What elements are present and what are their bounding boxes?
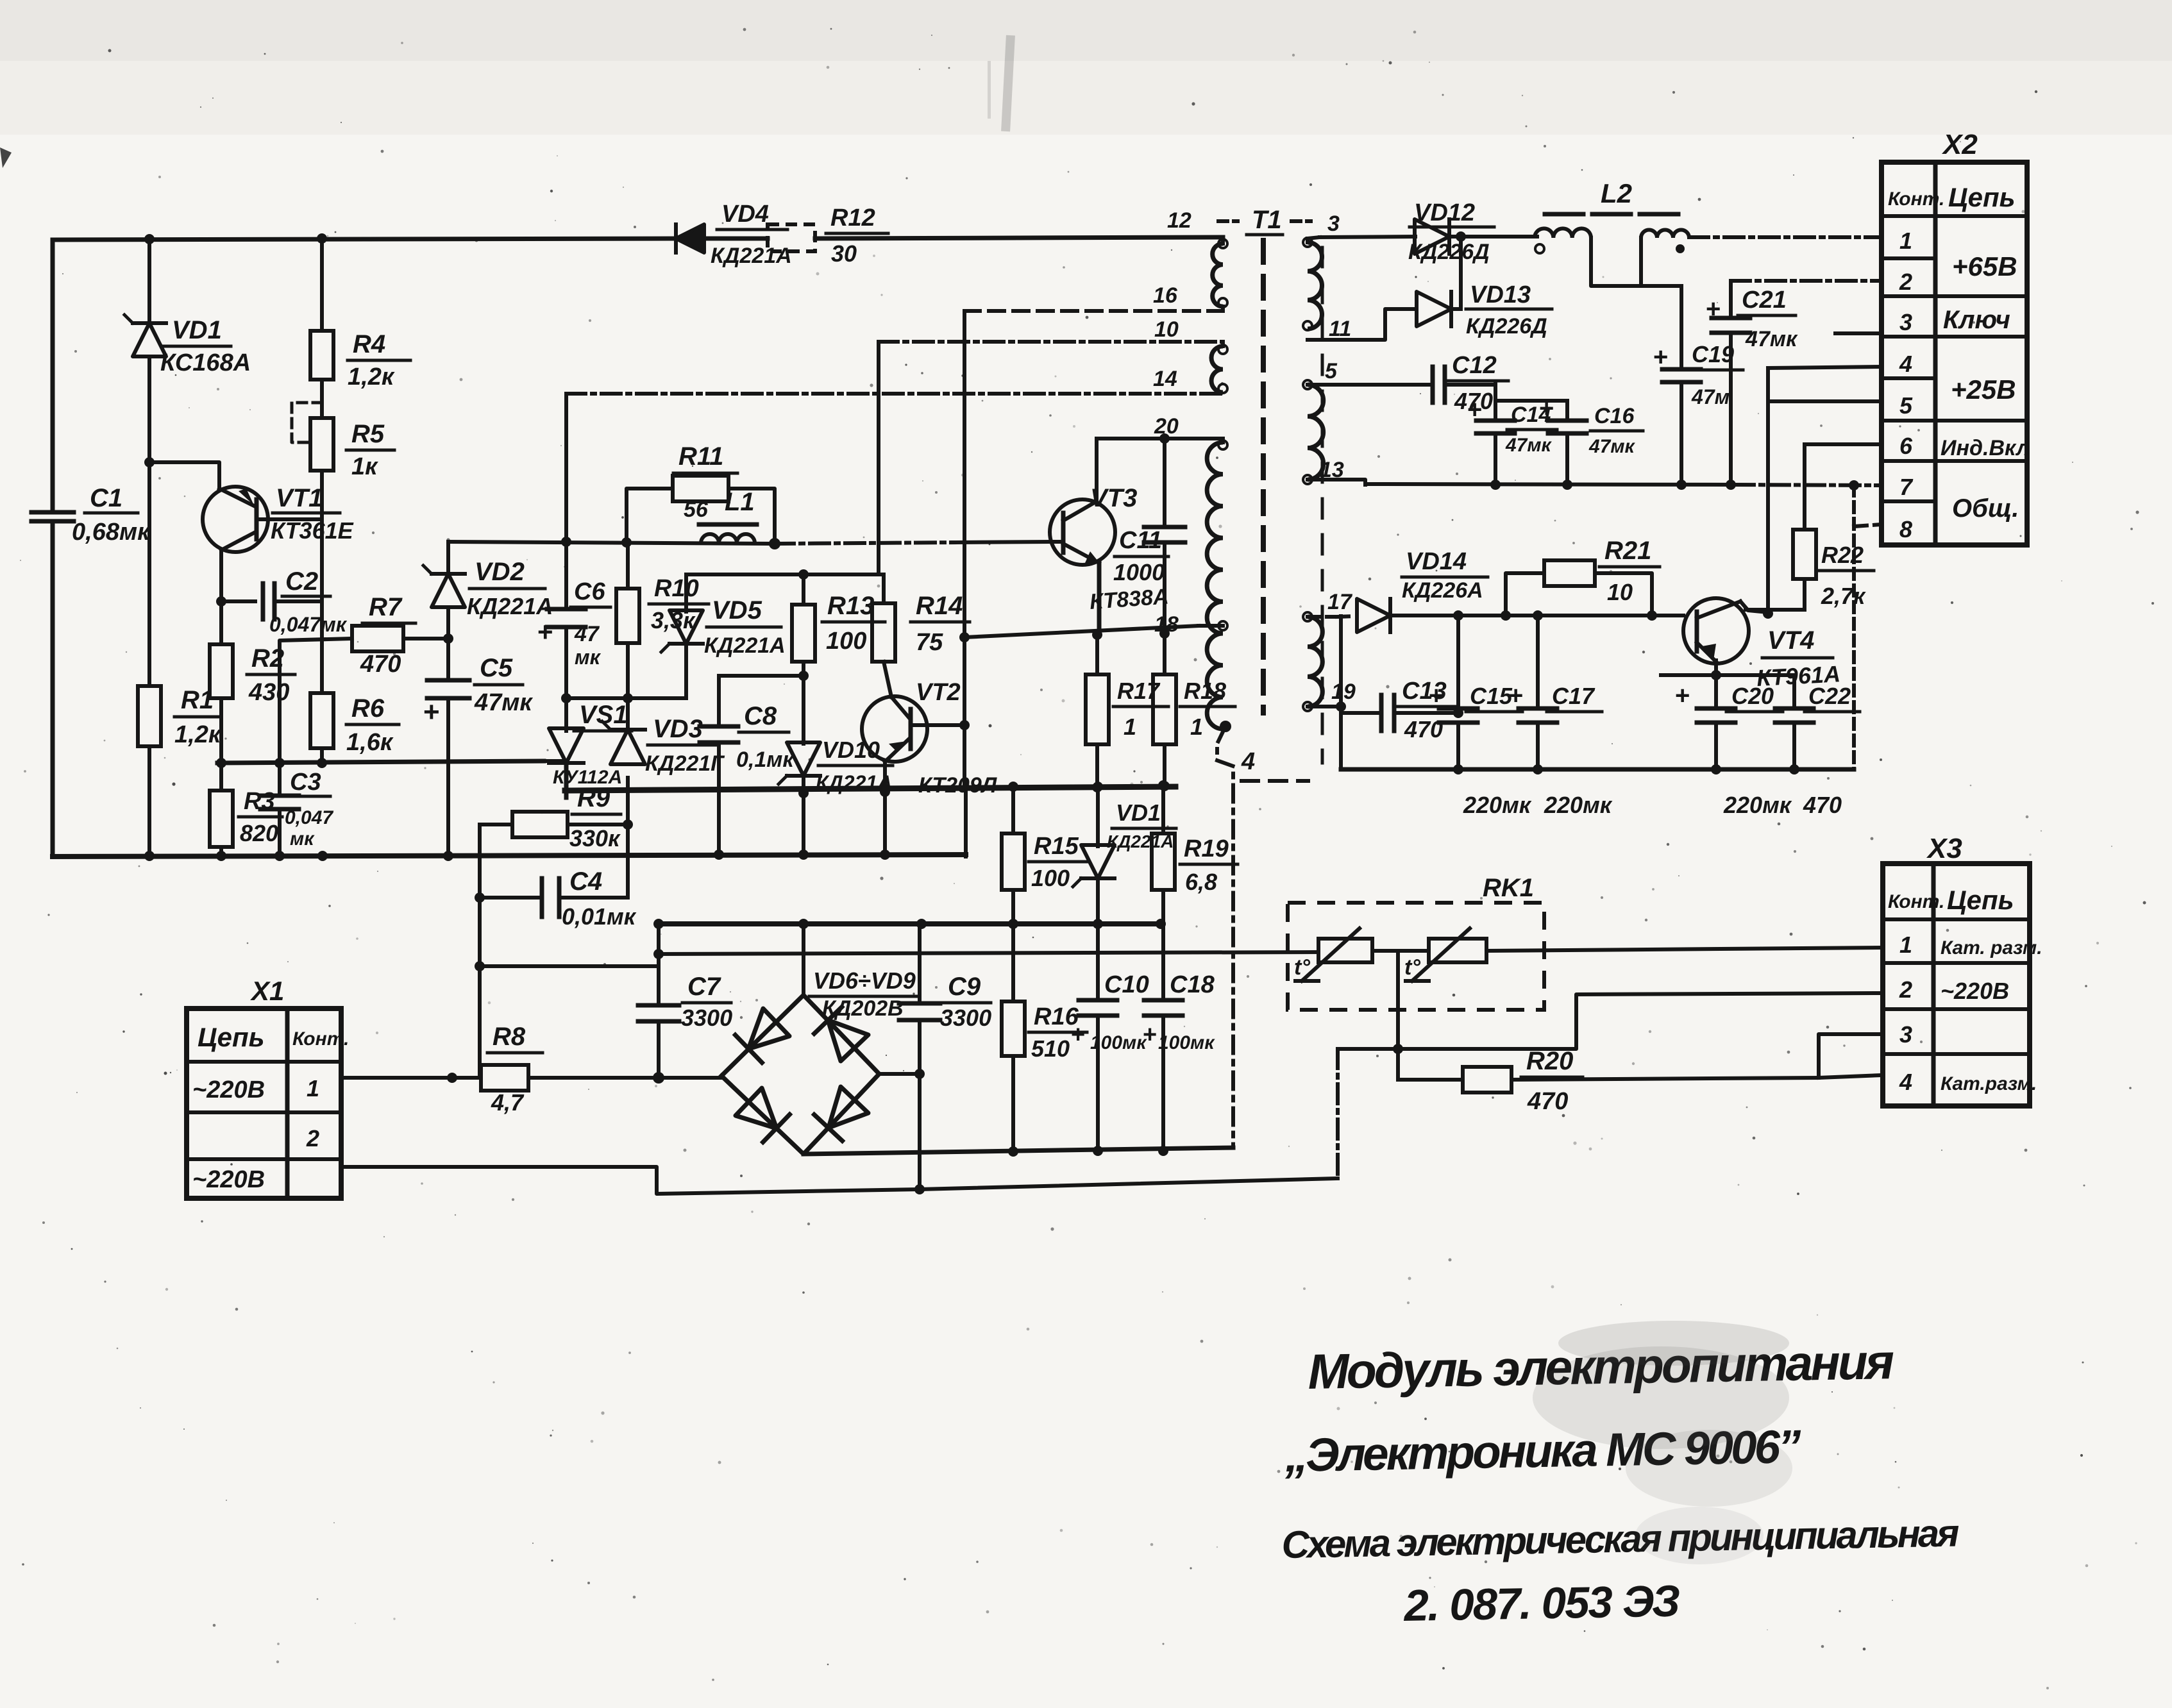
diode VD3 КД221Г bbox=[602, 698, 725, 825]
svg-text:C20: C20 bbox=[1731, 683, 1774, 709]
wire bottom bus bbox=[53, 855, 966, 857]
wire thermistor line bbox=[653, 949, 1318, 959]
node bus R3 bbox=[216, 851, 226, 861]
svg-text:220мк: 220мк bbox=[1723, 792, 1792, 818]
svg-text:+: + bbox=[537, 617, 553, 647]
resistor R20 bbox=[1398, 1047, 1819, 1115]
resistor R2 bbox=[210, 644, 295, 706]
wire pin13 obsh rail bbox=[1365, 484, 1882, 485]
svg-text:0,01мк: 0,01мк bbox=[562, 903, 637, 930]
wire pin14 line bbox=[566, 392, 1223, 396]
wire heavy mid rail bbox=[565, 787, 1175, 791]
transformer T1 core bbox=[1263, 240, 1322, 763]
wire row2 jog bbox=[1338, 993, 1882, 1049]
node bus R1 bbox=[144, 851, 155, 861]
svg-text:220мк: 220мк bbox=[1463, 792, 1532, 818]
svg-text:~220В: ~220В bbox=[192, 1076, 265, 1103]
wire left edge vertical lower bbox=[51, 521, 55, 857]
node top-left VD1 bbox=[144, 234, 155, 244]
transformer T1 winding 17-19 bbox=[1303, 612, 1322, 711]
svg-text:C2: C2 bbox=[285, 567, 318, 596]
svg-text:2: 2 bbox=[1899, 976, 1912, 1003]
svg-text:КД221Г: КД221Г bbox=[645, 751, 725, 776]
node C2 left bbox=[216, 596, 226, 607]
resistor R4 bbox=[310, 239, 410, 390]
svg-text:R12: R12 bbox=[830, 205, 875, 231]
wire bridge bottom line bbox=[804, 1148, 1233, 1154]
node top line C10 bbox=[1093, 919, 1103, 929]
svg-text:Кат.разм.: Кат.разм. bbox=[1940, 1073, 2037, 1094]
wire VT4 base bbox=[1652, 614, 1683, 617]
resistor R6 bbox=[310, 693, 399, 756]
svg-text:47м: 47м bbox=[1691, 385, 1730, 408]
svg-text:C7: C7 bbox=[687, 973, 721, 1001]
svg-text:VD14: VD14 bbox=[1406, 548, 1467, 575]
wire X2 pin2 line bbox=[1731, 279, 1882, 283]
node VD14 C17 bbox=[1533, 610, 1543, 621]
svg-text:47мк: 47мк bbox=[1588, 436, 1636, 457]
node rail C21 bbox=[1726, 480, 1736, 490]
wire R17R18 top line bbox=[964, 626, 1199, 637]
diode VD11 КД221А bbox=[1073, 782, 1176, 924]
wire R4-R5 bbox=[320, 380, 324, 418]
wire RK1 dashdot drop bbox=[1336, 1049, 1340, 1178]
resistor R1 bbox=[138, 686, 222, 748]
svg-text:0,1мк: 0,1мк bbox=[736, 748, 795, 772]
capacitor C8 bbox=[700, 671, 809, 857]
capacitor C16 bbox=[1495, 394, 1643, 484]
node top R4 bbox=[317, 233, 327, 244]
svg-text:2: 2 bbox=[306, 1125, 319, 1151]
connector X3 table bbox=[1883, 833, 2042, 1106]
svg-text:100мк: 100мк bbox=[1158, 1032, 1215, 1053]
svg-text:КС168А: КС168А bbox=[160, 349, 251, 376]
node L1 right bbox=[769, 538, 780, 549]
diode VD12 КД226Д bbox=[1408, 199, 1537, 264]
capacitor C9 bbox=[899, 924, 991, 1189]
svg-text:100мк: 100мк bbox=[1090, 1032, 1147, 1053]
diode VD10 КД221А bbox=[779, 737, 893, 857]
node busr C20 bbox=[1711, 764, 1721, 774]
svg-text:КТ361Е: КТ361Е bbox=[271, 517, 354, 544]
svg-text:R13: R13 bbox=[827, 592, 874, 620]
svg-text:R4: R4 bbox=[353, 330, 385, 358]
svg-text:1: 1 bbox=[1899, 932, 1912, 958]
svg-text:мк: мк bbox=[290, 828, 315, 850]
transistor VT1 КТ361 bbox=[203, 484, 354, 552]
svg-text:КД221А: КД221А bbox=[704, 633, 786, 658]
resistor R18 bbox=[1153, 628, 1235, 791]
svg-text:1: 1 bbox=[1124, 714, 1136, 740]
node VT4 collector bbox=[1763, 608, 1773, 619]
svg-text:C10: C10 bbox=[1104, 971, 1149, 998]
svg-text:КД226Д: КД226Д bbox=[1466, 314, 1547, 339]
svg-text:0,047: 0,047 bbox=[285, 807, 333, 828]
svg-text:C22: C22 bbox=[1808, 683, 1851, 709]
svg-text:Цепь: Цепь bbox=[198, 1022, 265, 1052]
node VD10 bus bbox=[798, 788, 809, 860]
svg-text:7: 7 bbox=[1899, 474, 1914, 500]
svg-text:C4: C4 bbox=[569, 867, 602, 896]
resistor R3 bbox=[210, 763, 282, 857]
wire X2 pin3 kluch bbox=[1835, 331, 1882, 335]
svg-text:VD6÷VD9: VD6÷VD9 bbox=[813, 967, 916, 994]
svg-text:75: 75 bbox=[916, 629, 943, 656]
svg-text:VT4: VT4 bbox=[1767, 626, 1814, 655]
svg-text:10: 10 bbox=[1154, 317, 1179, 342]
transistor VT4 КТ961А bbox=[1683, 598, 1841, 691]
svg-text:220мк: 220мк bbox=[1544, 792, 1613, 818]
svg-text:6: 6 bbox=[1899, 433, 1913, 459]
inductor L2 bbox=[1535, 178, 1689, 286]
svg-text:VT2: VT2 bbox=[916, 679, 961, 706]
wire VT3 emitter bbox=[1097, 563, 1102, 635]
capacitor C4 bbox=[475, 825, 637, 930]
capacitor C14 bbox=[1467, 383, 1557, 484]
pin 11 bbox=[1303, 309, 1417, 341]
node bus C5 bbox=[443, 851, 453, 861]
title line2 bbox=[1284, 1421, 1802, 1482]
svg-text:510: 510 bbox=[1031, 1035, 1070, 1062]
wire X2 pin6 line bbox=[1805, 442, 1882, 446]
svg-text:VD4: VD4 bbox=[721, 201, 769, 228]
svg-text:Кат. разм.: Кат. разм. bbox=[1940, 937, 2042, 959]
node R10 bottom bbox=[623, 693, 633, 703]
svg-text:КД226А: КД226А bbox=[1402, 578, 1483, 603]
node busr C17 bbox=[1533, 764, 1543, 774]
wire VT2 emitter bbox=[880, 762, 890, 857]
resistor R10 bbox=[616, 542, 709, 698]
node C7 feed bbox=[475, 961, 485, 971]
capacitor C12 bbox=[1433, 352, 1508, 414]
node R9 right bbox=[623, 819, 633, 830]
svg-text:0,68мк: 0,68мк bbox=[72, 519, 151, 546]
diode VD4 КД221А bbox=[676, 201, 792, 268]
svg-text:12: 12 bbox=[1167, 208, 1191, 233]
svg-text:C19: C19 bbox=[1692, 341, 1734, 367]
transistor VT3 КТ838А bbox=[1050, 484, 1170, 614]
svg-text:Инд.Вкл: Инд.Вкл bbox=[1940, 436, 2030, 460]
pin 17 bbox=[1308, 590, 1353, 617]
svg-text:T1: T1 bbox=[1252, 206, 1282, 234]
svg-text:C3: C3 bbox=[290, 769, 321, 796]
wire pin20 line bbox=[1097, 437, 1223, 440]
svg-text:VS1: VS1 bbox=[579, 701, 628, 729]
wire pin16 vertical bbox=[963, 311, 966, 637]
resistor R11 bbox=[627, 442, 775, 544]
node C6-VS1 bbox=[561, 693, 571, 703]
pin 5 bbox=[1308, 359, 1433, 385]
node rail C19 bbox=[1676, 480, 1687, 490]
svg-text:C6: C6 bbox=[574, 578, 605, 605]
svg-text:47мк: 47мк bbox=[1745, 327, 1798, 351]
node busr C22 bbox=[1789, 764, 1799, 774]
node C18 bottom bbox=[1158, 1146, 1168, 1156]
svg-text:3300: 3300 bbox=[940, 1005, 991, 1031]
svg-text:4: 4 bbox=[1899, 351, 1912, 377]
thyristor VS1 КУ112А bbox=[544, 698, 632, 798]
svg-text:КД226Д: КД226Д bbox=[1408, 240, 1490, 264]
svg-text:20: 20 bbox=[1154, 414, 1179, 439]
svg-text:1,6к: 1,6к bbox=[346, 729, 394, 756]
node VD14 R21right bbox=[1647, 610, 1657, 621]
svg-text:56: 56 bbox=[684, 498, 709, 522]
svg-text:~220В: ~220В bbox=[192, 1166, 265, 1193]
svg-text:470: 470 bbox=[1527, 1088, 1568, 1115]
svg-text:330к: 330к bbox=[569, 825, 621, 851]
wire to C7 top bbox=[480, 964, 659, 968]
svg-text:1: 1 bbox=[307, 1075, 319, 1101]
transformer T1 label bbox=[1218, 206, 1311, 235]
transformer T1 winding 10-14 bbox=[1211, 342, 1223, 392]
wire left edge vertical bbox=[51, 240, 55, 512]
svg-text:+: + bbox=[1429, 682, 1444, 710]
wire pin10 vertical bbox=[877, 342, 880, 574]
wire X2 pin5 line bbox=[1768, 399, 1882, 403]
svg-text:+: + bbox=[1508, 682, 1523, 710]
node top line C9 bbox=[916, 919, 927, 929]
wire L2 to X2 pin1 bbox=[1689, 235, 1882, 239]
svg-text:R6: R6 bbox=[351, 694, 385, 723]
node R10 top bbox=[621, 537, 632, 548]
wire X1 pin3 zigzag bbox=[341, 1167, 1338, 1194]
svg-text:18: 18 bbox=[1154, 612, 1179, 637]
svg-text:2: 2 bbox=[1899, 269, 1912, 295]
svg-text:10: 10 bbox=[1607, 579, 1633, 605]
svg-text:1000: 1000 bbox=[1113, 559, 1165, 585]
capacitor C3 bbox=[260, 763, 333, 857]
wire R6 bottom bbox=[320, 748, 324, 763]
svg-text:17: 17 bbox=[1327, 590, 1353, 614]
wire pin16 line bbox=[964, 309, 1223, 313]
svg-text:2,7к: 2,7к bbox=[1821, 583, 1866, 609]
pin 19 bbox=[1308, 680, 1356, 707]
svg-text:47: 47 bbox=[574, 622, 600, 646]
svg-text:+: + bbox=[1706, 295, 1721, 323]
svg-text:КД221А: КД221А bbox=[711, 244, 792, 268]
inductor L1 bbox=[699, 488, 757, 543]
wire bridge right to C9 bbox=[879, 1072, 920, 1076]
wire pin3 line bbox=[1320, 237, 1415, 237]
svg-text:RK1: RK1 bbox=[1483, 874, 1534, 902]
capacitor C2 bbox=[221, 567, 348, 636]
svg-text:VD2: VD2 bbox=[475, 558, 525, 586]
node top line C18 bbox=[1156, 919, 1166, 929]
resistor R12 bbox=[768, 205, 888, 267]
capacitor C21 bbox=[1706, 281, 1798, 484]
svg-text:R19: R19 bbox=[1184, 835, 1229, 862]
svg-text:+65В: +65В bbox=[1952, 251, 2017, 281]
svg-text:VD13: VD13 bbox=[1470, 281, 1531, 308]
svg-text:+: + bbox=[423, 696, 440, 728]
resistor R7 bbox=[280, 593, 448, 763]
svg-text:Общ.: Общ. bbox=[1952, 494, 2019, 523]
svg-text:t°: t° bbox=[1404, 955, 1420, 980]
title line1 bbox=[1308, 1334, 1894, 1400]
svg-text:4,7: 4,7 bbox=[491, 1089, 525, 1116]
title line4 bbox=[1402, 1577, 1680, 1631]
wire X3 pin3 stub bbox=[1819, 1034, 1882, 1078]
svg-text:C12: C12 bbox=[1452, 352, 1497, 379]
svg-text:+: + bbox=[1071, 1021, 1085, 1048]
capacitor C19 bbox=[1653, 286, 1743, 484]
capacitor C17 bbox=[1508, 615, 1613, 818]
wire pin10 line bbox=[879, 340, 1223, 344]
node C6 top-rail bbox=[561, 537, 571, 547]
svg-text:+: + bbox=[1675, 682, 1690, 710]
svg-text:430: 430 bbox=[248, 679, 289, 706]
svg-text:X1: X1 bbox=[250, 976, 284, 1006]
svg-text:Конт.: Конт. bbox=[1888, 891, 1944, 912]
resistor R9 bbox=[480, 784, 628, 851]
svg-text:+25В: +25В bbox=[1951, 374, 2016, 405]
svg-text:R8: R8 bbox=[492, 1023, 526, 1051]
pin 18 bbox=[1154, 612, 1227, 637]
node VD14 C15 bbox=[1453, 610, 1463, 621]
resistor R13 bbox=[792, 574, 885, 744]
node C7 bottom bbox=[653, 1072, 664, 1084]
wire pin16 vertical lower bbox=[964, 637, 966, 857]
wire VD5 bottom rail bbox=[566, 696, 686, 700]
capacitor C10 bbox=[1071, 924, 1149, 1151]
svg-text:R9: R9 bbox=[577, 784, 610, 812]
pin 14 bbox=[1153, 367, 1227, 393]
wire pin19 left vert bbox=[1336, 616, 1346, 769]
node top line C7 bbox=[653, 919, 664, 929]
thermistor RK1.1 bbox=[1294, 928, 1372, 981]
svg-text:+: + bbox=[1653, 343, 1668, 371]
svg-text:820: 820 bbox=[240, 820, 278, 846]
svg-text:8: 8 bbox=[1899, 516, 1912, 542]
svg-text:C21: C21 bbox=[1742, 287, 1787, 314]
svg-text:1,2к: 1,2к bbox=[174, 721, 222, 748]
node VD14 R21 bbox=[1501, 610, 1511, 621]
node rail C3 bbox=[274, 758, 285, 768]
svg-text:470: 470 bbox=[1803, 792, 1842, 818]
svg-text:R15: R15 bbox=[1034, 833, 1079, 860]
svg-text:R10: R10 bbox=[654, 575, 699, 602]
diode VD1 КС168А bbox=[124, 239, 251, 460]
svg-text:C11: C11 bbox=[1119, 527, 1162, 554]
wire VT1 emitter bbox=[149, 462, 219, 489]
capacitor C15 bbox=[1429, 615, 1532, 818]
svg-text:VD5: VD5 bbox=[712, 596, 762, 624]
pin 16 bbox=[1153, 283, 1227, 308]
svg-text:1,2к: 1,2к bbox=[348, 364, 395, 390]
node R8 left bbox=[447, 1073, 457, 1083]
svg-text:47мк: 47мк bbox=[474, 689, 533, 716]
svg-text:C8: C8 bbox=[744, 702, 777, 730]
svg-text:Конт.: Конт. bbox=[1888, 188, 1944, 210]
svg-text:3: 3 bbox=[1899, 309, 1912, 335]
node RK1 1633 bbox=[1393, 1044, 1403, 1054]
svg-text:+: + bbox=[1467, 396, 1482, 424]
node top line bridge bbox=[798, 919, 809, 929]
transformer T1 winding 12-16 bbox=[1213, 239, 1223, 311]
title line3 bbox=[1281, 1512, 1960, 1566]
svg-text:2. 087. 053 ЭЗ: 2. 087. 053 ЭЗ bbox=[1402, 1577, 1680, 1631]
svg-text:470: 470 bbox=[1404, 716, 1443, 742]
svg-text:3: 3 bbox=[1327, 212, 1340, 236]
resistor R17 bbox=[1086, 630, 1168, 792]
svg-text:4: 4 bbox=[1899, 1069, 1912, 1095]
svg-text:C9: C9 bbox=[948, 973, 981, 1001]
transformer T1 winding 5-13 bbox=[1303, 380, 1324, 484]
diode VD2 КД221А bbox=[423, 542, 553, 680]
resistor R16 bbox=[1002, 924, 1087, 1152]
node rail R6 bbox=[317, 758, 327, 768]
node R17R18 top-line bbox=[959, 632, 970, 642]
svg-text:VD1: VD1 bbox=[1116, 800, 1161, 826]
node rail C14 bbox=[1490, 480, 1501, 490]
wire VD5-R13 top line bbox=[686, 573, 884, 576]
svg-text:VD12: VD12 bbox=[1414, 199, 1475, 226]
diode VD5 КД221А bbox=[661, 574, 786, 698]
svg-text:4: 4 bbox=[1241, 748, 1255, 775]
thermistor RK1.2 bbox=[1404, 928, 1486, 981]
svg-text:Конт.: Конт. bbox=[292, 1028, 349, 1050]
svg-text:L2: L2 bbox=[1601, 178, 1632, 208]
node C13 right bbox=[1453, 708, 1463, 718]
wire pin17 line bbox=[1337, 616, 1355, 617]
svg-text:Ключ: Ключ bbox=[1943, 306, 2010, 334]
svg-text:11: 11 bbox=[1329, 317, 1351, 341]
resistor R8 bbox=[481, 1023, 721, 1116]
svg-text:30: 30 bbox=[831, 240, 857, 267]
wire RK1 mid down bbox=[1396, 951, 1400, 1080]
node C8 bus bbox=[714, 850, 724, 860]
capacitor C7 bbox=[638, 924, 732, 1078]
svg-text:19: 19 bbox=[1331, 680, 1356, 704]
pin 20 bbox=[1154, 414, 1227, 449]
wire R1 bottom bbox=[147, 746, 151, 857]
title smudge bbox=[1533, 1321, 1792, 1564]
diode VD13 КД226Д bbox=[1417, 231, 1552, 339]
capacitor C11 bbox=[1113, 433, 1185, 633]
wire thermistor to X3pin1 bbox=[1486, 948, 1882, 951]
svg-text:5: 5 bbox=[1325, 359, 1338, 383]
connector X1 table bbox=[187, 976, 349, 1198]
resistor R14 bbox=[872, 574, 970, 697]
wire bridge plus vert bbox=[802, 924, 805, 995]
wire X3 pin4 line bbox=[1819, 1075, 1882, 1078]
wire VT4 emitter line bbox=[1661, 660, 1794, 675]
svg-text:C17: C17 bbox=[1552, 683, 1595, 709]
wire VT3 collector bbox=[1095, 439, 1099, 501]
wire top rail bbox=[53, 237, 1223, 240]
capacitor C13 bbox=[1341, 678, 1458, 742]
capacitor C6 bbox=[537, 394, 610, 697]
capacitor C22 bbox=[1775, 675, 1860, 818]
resistor R15 bbox=[1002, 782, 1087, 924]
node busr C15 bbox=[1453, 764, 1463, 774]
wire X2 pin8 line bbox=[1854, 485, 1882, 769]
svg-text:3: 3 bbox=[1899, 1021, 1912, 1048]
svg-text:C15: C15 bbox=[1470, 683, 1513, 709]
wire VD1 to R1 bbox=[147, 460, 151, 686]
svg-text:3300: 3300 bbox=[681, 1005, 732, 1031]
pin 13 bbox=[1308, 458, 1365, 485]
svg-text:t°: t° bbox=[1294, 955, 1310, 980]
svg-text:+: + bbox=[1143, 1021, 1157, 1048]
pin 10 bbox=[1154, 317, 1227, 354]
resistor R22 bbox=[1746, 444, 1874, 610]
svg-text:14: 14 bbox=[1153, 367, 1177, 391]
svg-text:1: 1 bbox=[1190, 714, 1203, 740]
wire bottom right bus bbox=[1341, 767, 1854, 772]
wire R9 left vertical bbox=[478, 825, 482, 1078]
wire base-gate rail bbox=[217, 761, 544, 763]
